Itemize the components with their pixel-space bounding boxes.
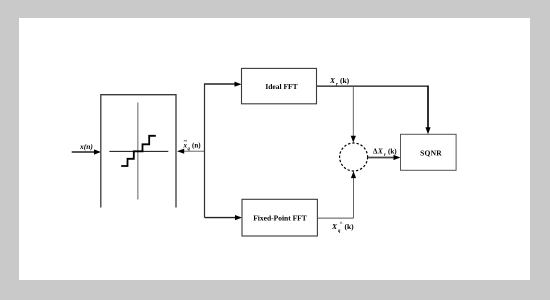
node label Xq^(k) (331, 221, 354, 234)
quantizer horizontal axis (109, 150, 168, 152)
block Fixed-Point FFT (242, 199, 317, 236)
svg-text:x(n): x(n) (79, 142, 93, 151)
block Ideal FFT (242, 68, 317, 103)
node label Xr(k) (329, 76, 350, 88)
svg-text:Fixed-Point FFT: Fixed-Point FFT (253, 214, 307, 223)
quantizer vertical axis (137, 103, 139, 200)
svg-text:(k): (k) (388, 148, 397, 156)
quantizer box Q (open bottom) (101, 95, 176, 208)
wire quantizer output (arrow points left into box) (177, 149, 205, 154)
svg-text:r: r (384, 153, 386, 158)
svg-text:Ideal FFT: Ideal FFT (265, 82, 297, 91)
svg-text:^: ^ (340, 221, 343, 227)
svg-text:q: q (338, 229, 341, 234)
block SQNR (401, 134, 457, 170)
svg-text:X: X (331, 222, 338, 231)
summing node (dashed circle) (340, 143, 368, 171)
wire branch vertical (204, 84, 206, 218)
wire Xq^(k) output of Fixed-Point FFT (317, 217, 353, 219)
svg-text:X: X (329, 76, 336, 85)
wire to Ideal FFT (204, 82, 242, 87)
svg-text:(k): (k) (345, 222, 355, 231)
svg-text:~: ~ (184, 139, 188, 145)
wire X(k) output of Ideal FFT (317, 86, 431, 135)
node label dXr(k) (373, 148, 397, 159)
svg-text:(n): (n) (192, 142, 201, 150)
wire input x(n) (72, 149, 101, 154)
wire branch down to summing node (351, 86, 356, 142)
svg-text:(k): (k) (340, 76, 350, 85)
wire to Fixed-Point FFT (205, 215, 243, 220)
svg-text:r: r (336, 83, 338, 88)
svg-text:SQNR: SQNR (420, 149, 442, 158)
quantizer staircase characteristic (121, 136, 156, 166)
wire delta X to SQNR (368, 155, 401, 160)
node label xq~(n) (183, 139, 202, 152)
svg-text:X: X (377, 148, 383, 156)
wire from Fixed-Point FFT up into summing node (351, 171, 356, 218)
